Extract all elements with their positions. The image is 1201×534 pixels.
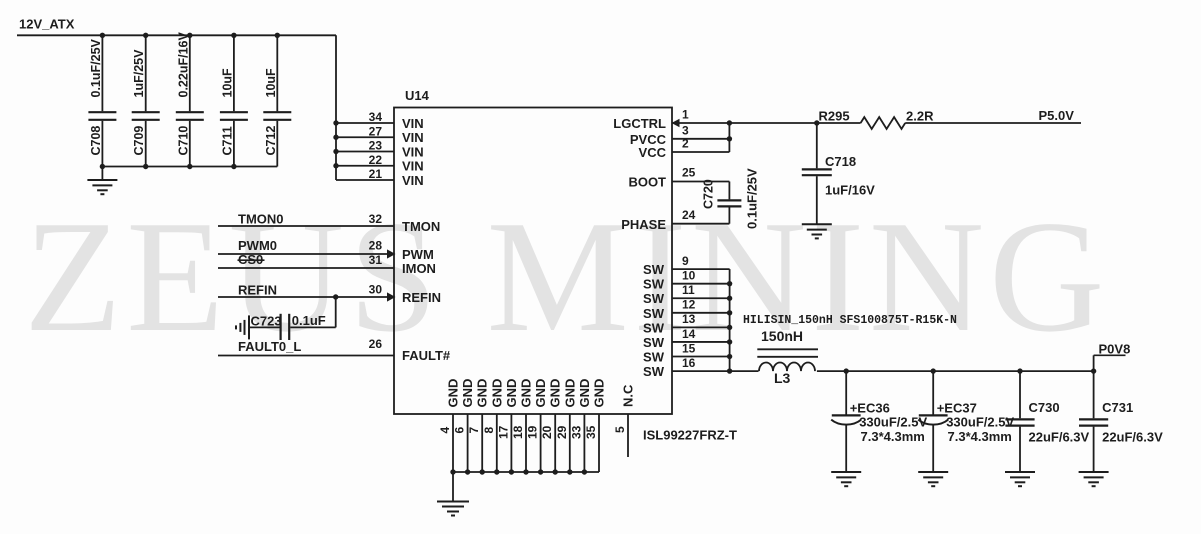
svg-text:SW: SW (643, 364, 665, 379)
svg-text:14: 14 (682, 327, 696, 341)
svg-text:25: 25 (682, 166, 696, 180)
wire SW pin 15 stub (672, 341, 730, 356)
svg-text:2.2R: 2.2R (906, 109, 934, 124)
svg-text:GND: GND (504, 379, 519, 408)
junction node EC36 tap (844, 368, 849, 373)
svg-text:N.C: N.C (621, 384, 636, 407)
svg-text:0.22uF/16V: 0.22uF/16V (176, 32, 190, 98)
svg-text:27: 27 (369, 124, 383, 138)
svg-text:5: 5 (613, 426, 627, 433)
capacitor C731 22uF/6.3V (1079, 371, 1108, 472)
wire N.C pin 5 stub (613, 384, 636, 457)
svg-text:R295: R295 (819, 109, 850, 124)
svg-text:C723: C723 (251, 314, 282, 329)
svg-text:0.1uF/25V: 0.1uF/25V (89, 38, 103, 97)
capacitor EC37 330uF/2.5V electrolytic (918, 371, 948, 472)
svg-text:C730: C730 (1029, 400, 1060, 415)
wire GND pin 4 stub (438, 379, 461, 472)
wire VIN pin 27 stub (336, 124, 394, 138)
svg-text:28: 28 (369, 239, 383, 253)
capacitor C712 10uF (263, 35, 291, 166)
capacitor C710 0.22uF/16V (176, 32, 204, 167)
svg-text:C708: C708 (89, 126, 103, 156)
svg-text:FAULT#: FAULT# (402, 348, 451, 363)
capacitor C709 1uF/25V (132, 35, 160, 166)
svg-text:34: 34 (369, 110, 383, 124)
svg-text:PHASE: PHASE (621, 217, 666, 232)
svg-text:P0V8: P0V8 (1099, 342, 1131, 357)
svg-text:C731: C731 (1102, 400, 1133, 415)
svg-text:10: 10 (682, 268, 696, 282)
wire LGCTRL pin 1 to P5.0V rail (672, 122, 1081, 124)
svg-text:0.1uF: 0.1uF (292, 313, 326, 328)
svg-text:P5.0V: P5.0V (1039, 108, 1075, 123)
svg-text:SW: SW (643, 320, 665, 335)
wire BOOT pin 25 stub (672, 181, 729, 183)
capacitor C730 22uF/6.3V (1005, 371, 1034, 472)
ground (C731) (1079, 471, 1109, 473)
svg-text:8: 8 (482, 427, 496, 434)
svg-text:BOOT: BOOT (628, 175, 666, 190)
svg-text:9: 9 (682, 254, 689, 268)
junction node on REFIN wire (C723 tap) (333, 294, 338, 299)
capacitor C718 1uF/16V (802, 123, 832, 224)
wire 12V_ATX horizontal bus (17, 34, 336, 36)
svg-text:1: 1 (682, 108, 689, 122)
svg-text:L3: L3 (774, 370, 791, 386)
svg-text:18: 18 (511, 425, 525, 439)
wire SW node to inductor (730, 370, 759, 372)
svg-text:VCC: VCC (639, 145, 667, 160)
inductor L3 150nH (757, 349, 818, 371)
svg-text:SW: SW (643, 291, 665, 306)
svg-text:TMON0: TMON0 (238, 212, 284, 227)
capacitor C720 0.1uF/25V (BOOT-PHASE) (717, 182, 741, 224)
svg-text:1uF/25V: 1uF/25V (132, 49, 146, 98)
svg-text:7: 7 (467, 427, 481, 434)
svg-text:19: 19 (526, 425, 540, 439)
svg-text:22uF/6.3V: 22uF/6.3V (1102, 430, 1163, 445)
wire GND pin 8 stub (482, 379, 505, 472)
svg-text:SW: SW (643, 335, 665, 350)
net PWM0 wire (218, 253, 388, 255)
svg-text:3: 3 (682, 123, 689, 137)
svg-text:PWM0: PWM0 (238, 238, 277, 253)
svg-text:C711: C711 (220, 126, 234, 155)
svg-text:4: 4 (438, 427, 452, 434)
wire GND pin 6 stub (453, 379, 476, 472)
ground (C718) (802, 223, 832, 225)
ground (EC37) (918, 471, 948, 473)
svg-text:12: 12 (682, 298, 696, 312)
junction dot P0V8 corner node (1091, 368, 1096, 373)
svg-text:GND: GND (548, 379, 563, 408)
wire PHASE pin 24 stub (672, 223, 729, 225)
svg-text:2: 2 (682, 137, 689, 151)
svg-text:33: 33 (569, 425, 583, 439)
svg-text:C709: C709 (132, 126, 146, 156)
pin arrow PWM input (387, 249, 396, 258)
svg-text:6: 6 (453, 427, 467, 434)
svg-text:GND: GND (533, 379, 548, 408)
svg-text:150nH: 150nH (761, 328, 803, 344)
wire SW bus vertical (729, 269, 731, 371)
svg-text:330uF/2.5V: 330uF/2.5V (859, 415, 927, 430)
resistor R295 2.2R (861, 117, 906, 129)
svg-text:11: 11 (682, 283, 695, 297)
junction dots on VIN bus (333, 120, 338, 168)
wire C723 tap vertical (335, 297, 337, 327)
wire VIN pin 22 stub (336, 153, 394, 167)
junction dots on capacitor ground bus (100, 164, 237, 169)
svg-text:10uF: 10uF (264, 68, 278, 98)
svg-text:+EC37: +EC37 (937, 401, 977, 416)
svg-text:GND: GND (460, 379, 475, 408)
ground (C723, sideways) (236, 315, 249, 339)
wire SW pin 12 stub (672, 298, 730, 313)
pin arrow REFIN input (387, 292, 396, 301)
svg-text:GND: GND (475, 379, 490, 408)
svg-text:24: 24 (682, 208, 696, 222)
svg-text:C710: C710 (176, 126, 190, 156)
wire GND pin 29 stub (555, 379, 578, 472)
svg-text:GND: GND (446, 379, 461, 408)
capacitor C708 0.1uF/25V (88, 35, 116, 166)
junction dots on 12V_ATX bus (100, 33, 280, 38)
svg-text:REFIN: REFIN (238, 283, 277, 298)
svg-text:LGCTRL: LGCTRL (613, 116, 666, 131)
ground (input capacitor bank) (87, 167, 117, 195)
wire PVCC pin 3 stub (672, 138, 729, 140)
svg-text:GND: GND (519, 379, 534, 408)
svg-text:U14: U14 (405, 88, 430, 103)
IC U14 left pin names (402, 116, 451, 363)
svg-text:GND: GND (562, 379, 577, 408)
net FAULT0_L wire (218, 355, 394, 357)
svg-text:12V_ATX: 12V_ATX (19, 17, 75, 32)
svg-text:GND: GND (489, 379, 504, 408)
svg-text:7.3*4.3mm: 7.3*4.3mm (948, 429, 1012, 444)
svg-text:330uF/2.5V: 330uF/2.5V (946, 415, 1014, 430)
net TMON0 wire (218, 225, 394, 227)
wire GND pin 20 stub (540, 379, 563, 472)
wire 12V bus vertical drop to VIN pins (335, 35, 337, 180)
wire GND pin 18 stub (511, 379, 534, 472)
svg-text:VIN: VIN (402, 116, 424, 131)
svg-text:SW: SW (643, 350, 665, 365)
svg-text:TMON: TMON (402, 219, 440, 234)
wire GND bus (453, 471, 599, 473)
ground (U14 GND pins) (437, 472, 469, 516)
svg-text:GND: GND (592, 379, 607, 408)
svg-text:35: 35 (584, 425, 598, 439)
svg-text:16: 16 (682, 356, 696, 370)
wire VIN pin 23 stub (336, 139, 394, 153)
ground (C730) (1005, 471, 1035, 473)
svg-text:31: 31 (369, 253, 383, 267)
svg-text:HILISIN_150nH SFS100875T-R15K-: HILISIN_150nH SFS100875T-R15K-N (743, 314, 957, 327)
svg-text:30: 30 (369, 283, 383, 297)
junction dots on GND bus (450, 469, 587, 474)
wire GND pin 33 stub (569, 379, 592, 472)
wire SW pin 14 stub (672, 327, 730, 342)
capacitor EC36 330uF/2.5V electrolytic (831, 371, 861, 472)
svg-text:SW: SW (643, 306, 665, 321)
svg-text:VIN: VIN (402, 173, 424, 188)
junction node C718 tap on P5.0V rail (814, 120, 819, 125)
ground (EC36) (831, 471, 861, 473)
svg-text:32: 32 (369, 212, 383, 226)
svg-text:C720: C720 (702, 179, 716, 209)
svg-text:VIN: VIN (402, 144, 424, 159)
svg-text:17: 17 (496, 425, 510, 439)
wire C723 right lead (290, 326, 335, 328)
capacitor C723 0.1uF (281, 314, 290, 340)
svg-text:VIN: VIN (402, 159, 424, 174)
svg-text:FAULT0_L: FAULT0_L (238, 339, 301, 354)
svg-text:ISL99227FRZ-T: ISL99227FRZ-T (643, 428, 737, 443)
svg-text:ZEUS MINING: ZEUS MINING (24, 187, 1109, 365)
svg-text:21: 21 (369, 167, 383, 181)
svg-text:29: 29 (555, 425, 569, 439)
wire capacitor ground bus (102, 166, 277, 168)
junction dots on SW bus (727, 281, 732, 374)
wire VIN pin 34 stub (336, 110, 394, 124)
wire GND pin 19 stub (526, 379, 549, 472)
svg-text:13: 13 (682, 312, 696, 326)
svg-text:1uF/16V: 1uF/16V (825, 183, 875, 198)
junction dot C730 tap (1017, 368, 1022, 373)
wire VCC pin 2 stub (672, 151, 729, 153)
wire SW pin 16 stub (672, 356, 730, 371)
net CS0 wire (218, 267, 394, 269)
svg-text:26: 26 (369, 337, 383, 351)
svg-text:C718: C718 (825, 154, 856, 169)
wire pins 1-3-2 tie vertical (728, 123, 730, 152)
wire SW pin 10 stub (672, 268, 730, 283)
wire SW pin 11 stub (672, 283, 730, 298)
svg-text:0.1uF/25V: 0.1uF/25V (745, 168, 760, 229)
junction node EC37 tap (931, 368, 936, 373)
svg-text:REFIN: REFIN (402, 290, 441, 305)
svg-text:VIN: VIN (402, 130, 424, 145)
pin arrow LGCTRL (points into IC) (672, 119, 680, 128)
svg-text:C712: C712 (264, 126, 278, 156)
wire GND pin 17 stub (496, 379, 519, 472)
IC U14 right pin names (613, 116, 666, 379)
capacitor C711 10uF (220, 35, 248, 166)
net REFIN wire (218, 296, 388, 298)
net label P0V8 (1094, 342, 1131, 357)
wire SW pin 13 stub (672, 312, 730, 327)
svg-text:15: 15 (682, 341, 696, 355)
wire GND pin 35 stub (584, 379, 607, 472)
wire GND pin 7 stub (467, 379, 490, 472)
wire P0V8 output rail (817, 370, 1094, 372)
svg-text:22: 22 (369, 153, 383, 167)
svg-text:GND: GND (577, 379, 592, 408)
svg-text:20: 20 (540, 425, 554, 439)
svg-text:PWM: PWM (402, 247, 434, 262)
wire SW pin 9 stub (672, 254, 730, 269)
svg-text:7.3*4.3mm: 7.3*4.3mm (861, 429, 925, 444)
junction dots pins 1/3 tie (727, 120, 732, 141)
svg-text:22uF/6.3V: 22uF/6.3V (1029, 430, 1090, 445)
IC U14 body (394, 108, 672, 415)
svg-text:23: 23 (369, 139, 383, 153)
svg-text:SW: SW (643, 277, 665, 292)
wire C723 left lead (249, 326, 280, 328)
wire P0V8 net stub (1093, 355, 1095, 371)
svg-text:+EC36: +EC36 (850, 401, 890, 416)
svg-text:10uF: 10uF (220, 68, 234, 98)
svg-text:SW: SW (643, 262, 665, 277)
wire VIN pin 21 stub (336, 167, 394, 181)
net label CS0 (with strike) (238, 252, 265, 267)
svg-text:IMON: IMON (402, 261, 436, 276)
